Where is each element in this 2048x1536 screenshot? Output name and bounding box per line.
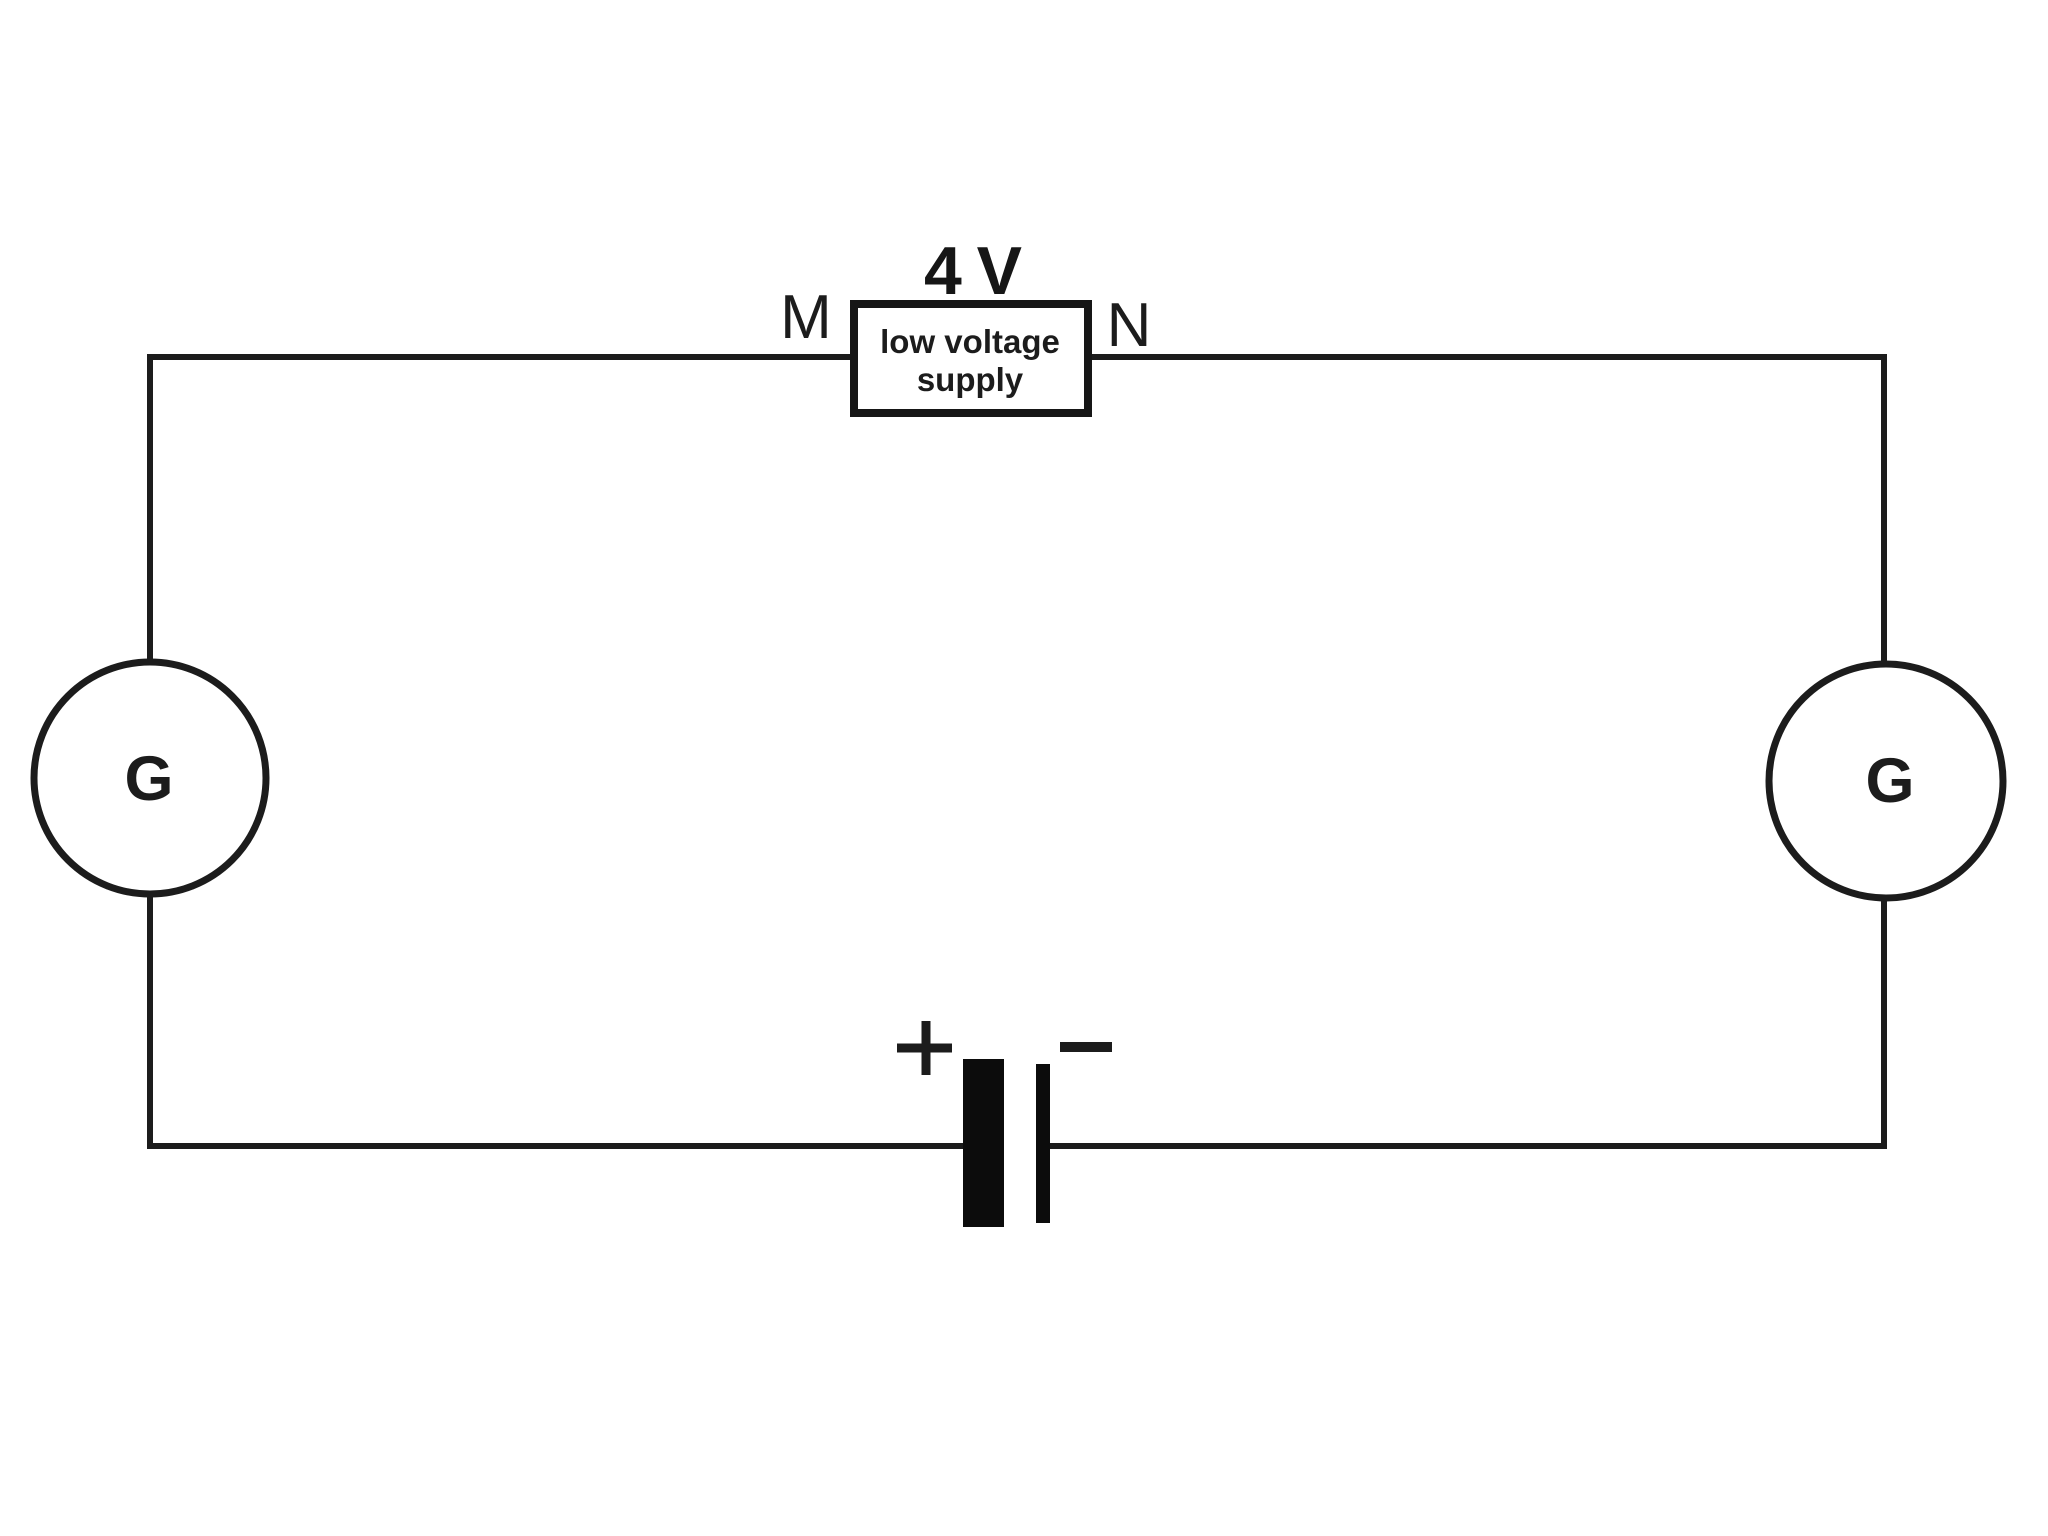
- low voltage supply box: [854, 304, 1088, 413]
- svg-text:supply: supply: [917, 361, 1024, 398]
- label: − polarity: [1060, 1042, 1112, 1052]
- svg-text:M: M: [780, 283, 832, 352]
- wire: left vertical upper + top-left horizontal to supply terminal M: [150, 357, 854, 662]
- wire: top-right horizontal from supply terminal N + right vertical upper: [1088, 357, 1884, 663]
- galvanometer G (right): [1769, 664, 2003, 898]
- wire: left vertical lower + bottom-left horizontal to battery positive plate: [150, 894, 965, 1146]
- svg-text:4 V: 4 V: [924, 233, 1022, 309]
- svg-text:G: G: [1865, 746, 1914, 816]
- svg-text:G: G: [124, 744, 173, 814]
- svg-text:low voltage: low voltage: [880, 323, 1060, 360]
- battery cell: negative plate (thin bar): [1036, 1064, 1050, 1223]
- svg-text:N: N: [1107, 291, 1152, 360]
- galvanometer G (left): [34, 662, 266, 894]
- label: + polarity: [897, 1021, 952, 1075]
- wire: bottom-right horizontal from battery negative plate + right vertical lower: [1043, 900, 1884, 1146]
- battery cell: positive plate (thick bar): [963, 1059, 1004, 1227]
